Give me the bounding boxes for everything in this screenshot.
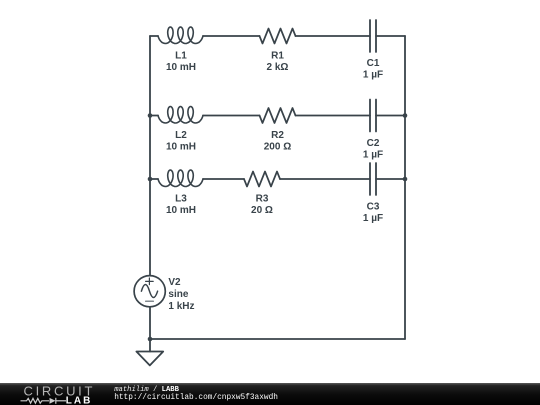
svg-text:C2: C2 [367,138,380,149]
resistor R2 [260,108,296,123]
capacitor C1 [370,20,376,52]
resistor R3 [244,172,280,187]
V2 sine wave mark [141,285,157,298]
wire right rail [404,36,406,339]
svg-text:1 µF: 1 µF [363,150,383,161]
svg-text:10 mH: 10 mH [166,205,196,216]
wire left rail [149,36,151,276]
node dot right row2 [403,113,408,118]
svg-text:L2: L2 [175,130,187,141]
svg-text:http://circuitlab.com/cnpxw5f3: http://circuitlab.com/cnpxw5f3axwdh [114,394,278,402]
V2 minus sign [146,300,154,302]
capacitor C2 [370,100,376,132]
capacitor C3 [370,163,376,195]
svg-text:V2: V2 [168,277,181,288]
node dot left row2 [148,113,153,118]
svg-text:LAB: LAB [66,396,93,405]
svg-text:1 µF: 1 µF [363,70,383,81]
svg-text:L1: L1 [175,50,187,61]
wire row1: C1 to right rail [376,35,405,37]
inductor L2 [158,107,203,124]
wire row1: L1 to R1 [203,35,260,37]
V2 plus sign [146,278,154,285]
svg-text:R3: R3 [256,193,269,204]
wire row3: left rail to L3 [150,178,158,180]
ground [136,352,163,366]
inductor L3 [158,170,203,187]
svg-text:R1: R1 [271,50,284,61]
logo resistor-diode glyph [21,398,67,404]
svg-text:10 mH: 10 mH [166,141,196,152]
svg-text:mathilim / LABB: mathilim / LABB [114,386,179,394]
svg-text:L3: L3 [175,193,187,204]
svg-text:10 mH: 10 mH [166,62,196,73]
wire row2: L2 to R2 [203,115,260,117]
svg-text:1 µF: 1 µF [363,213,383,224]
svg-text:C3: C3 [367,202,380,213]
inductor L1 [158,27,203,44]
node dot left row3 [148,177,153,182]
wire row2: left rail to L2 [150,115,158,117]
svg-text:1 kHz: 1 kHz [168,301,194,312]
wire V2 bottom to ground [149,307,151,352]
wire row3: C3 to right rail [376,178,405,180]
svg-text:200 Ω: 200 Ω [264,141,291,152]
footer bar [0,383,540,405]
voltage source V2 circle [134,276,165,307]
wire row2: C2 to right rail [376,115,405,117]
svg-text:C1: C1 [367,58,380,69]
wire row3: L3 to R3 [203,178,244,180]
wire row2: R2 to C2 [296,115,371,117]
resistor R1 [260,29,296,44]
svg-text:sine: sine [168,289,188,300]
wire bottom rail [150,338,405,340]
wire row1: R1 to C1 [296,35,371,37]
wire row3: R3 to C3 [280,178,370,180]
node dot ground junction [148,337,153,342]
wire row1: left rail to L1 [150,35,158,37]
svg-text:R2: R2 [271,130,284,141]
svg-text:2 kΩ: 2 kΩ [267,62,289,73]
node dot right row3 [403,177,408,182]
svg-text:20 Ω: 20 Ω [251,205,273,216]
